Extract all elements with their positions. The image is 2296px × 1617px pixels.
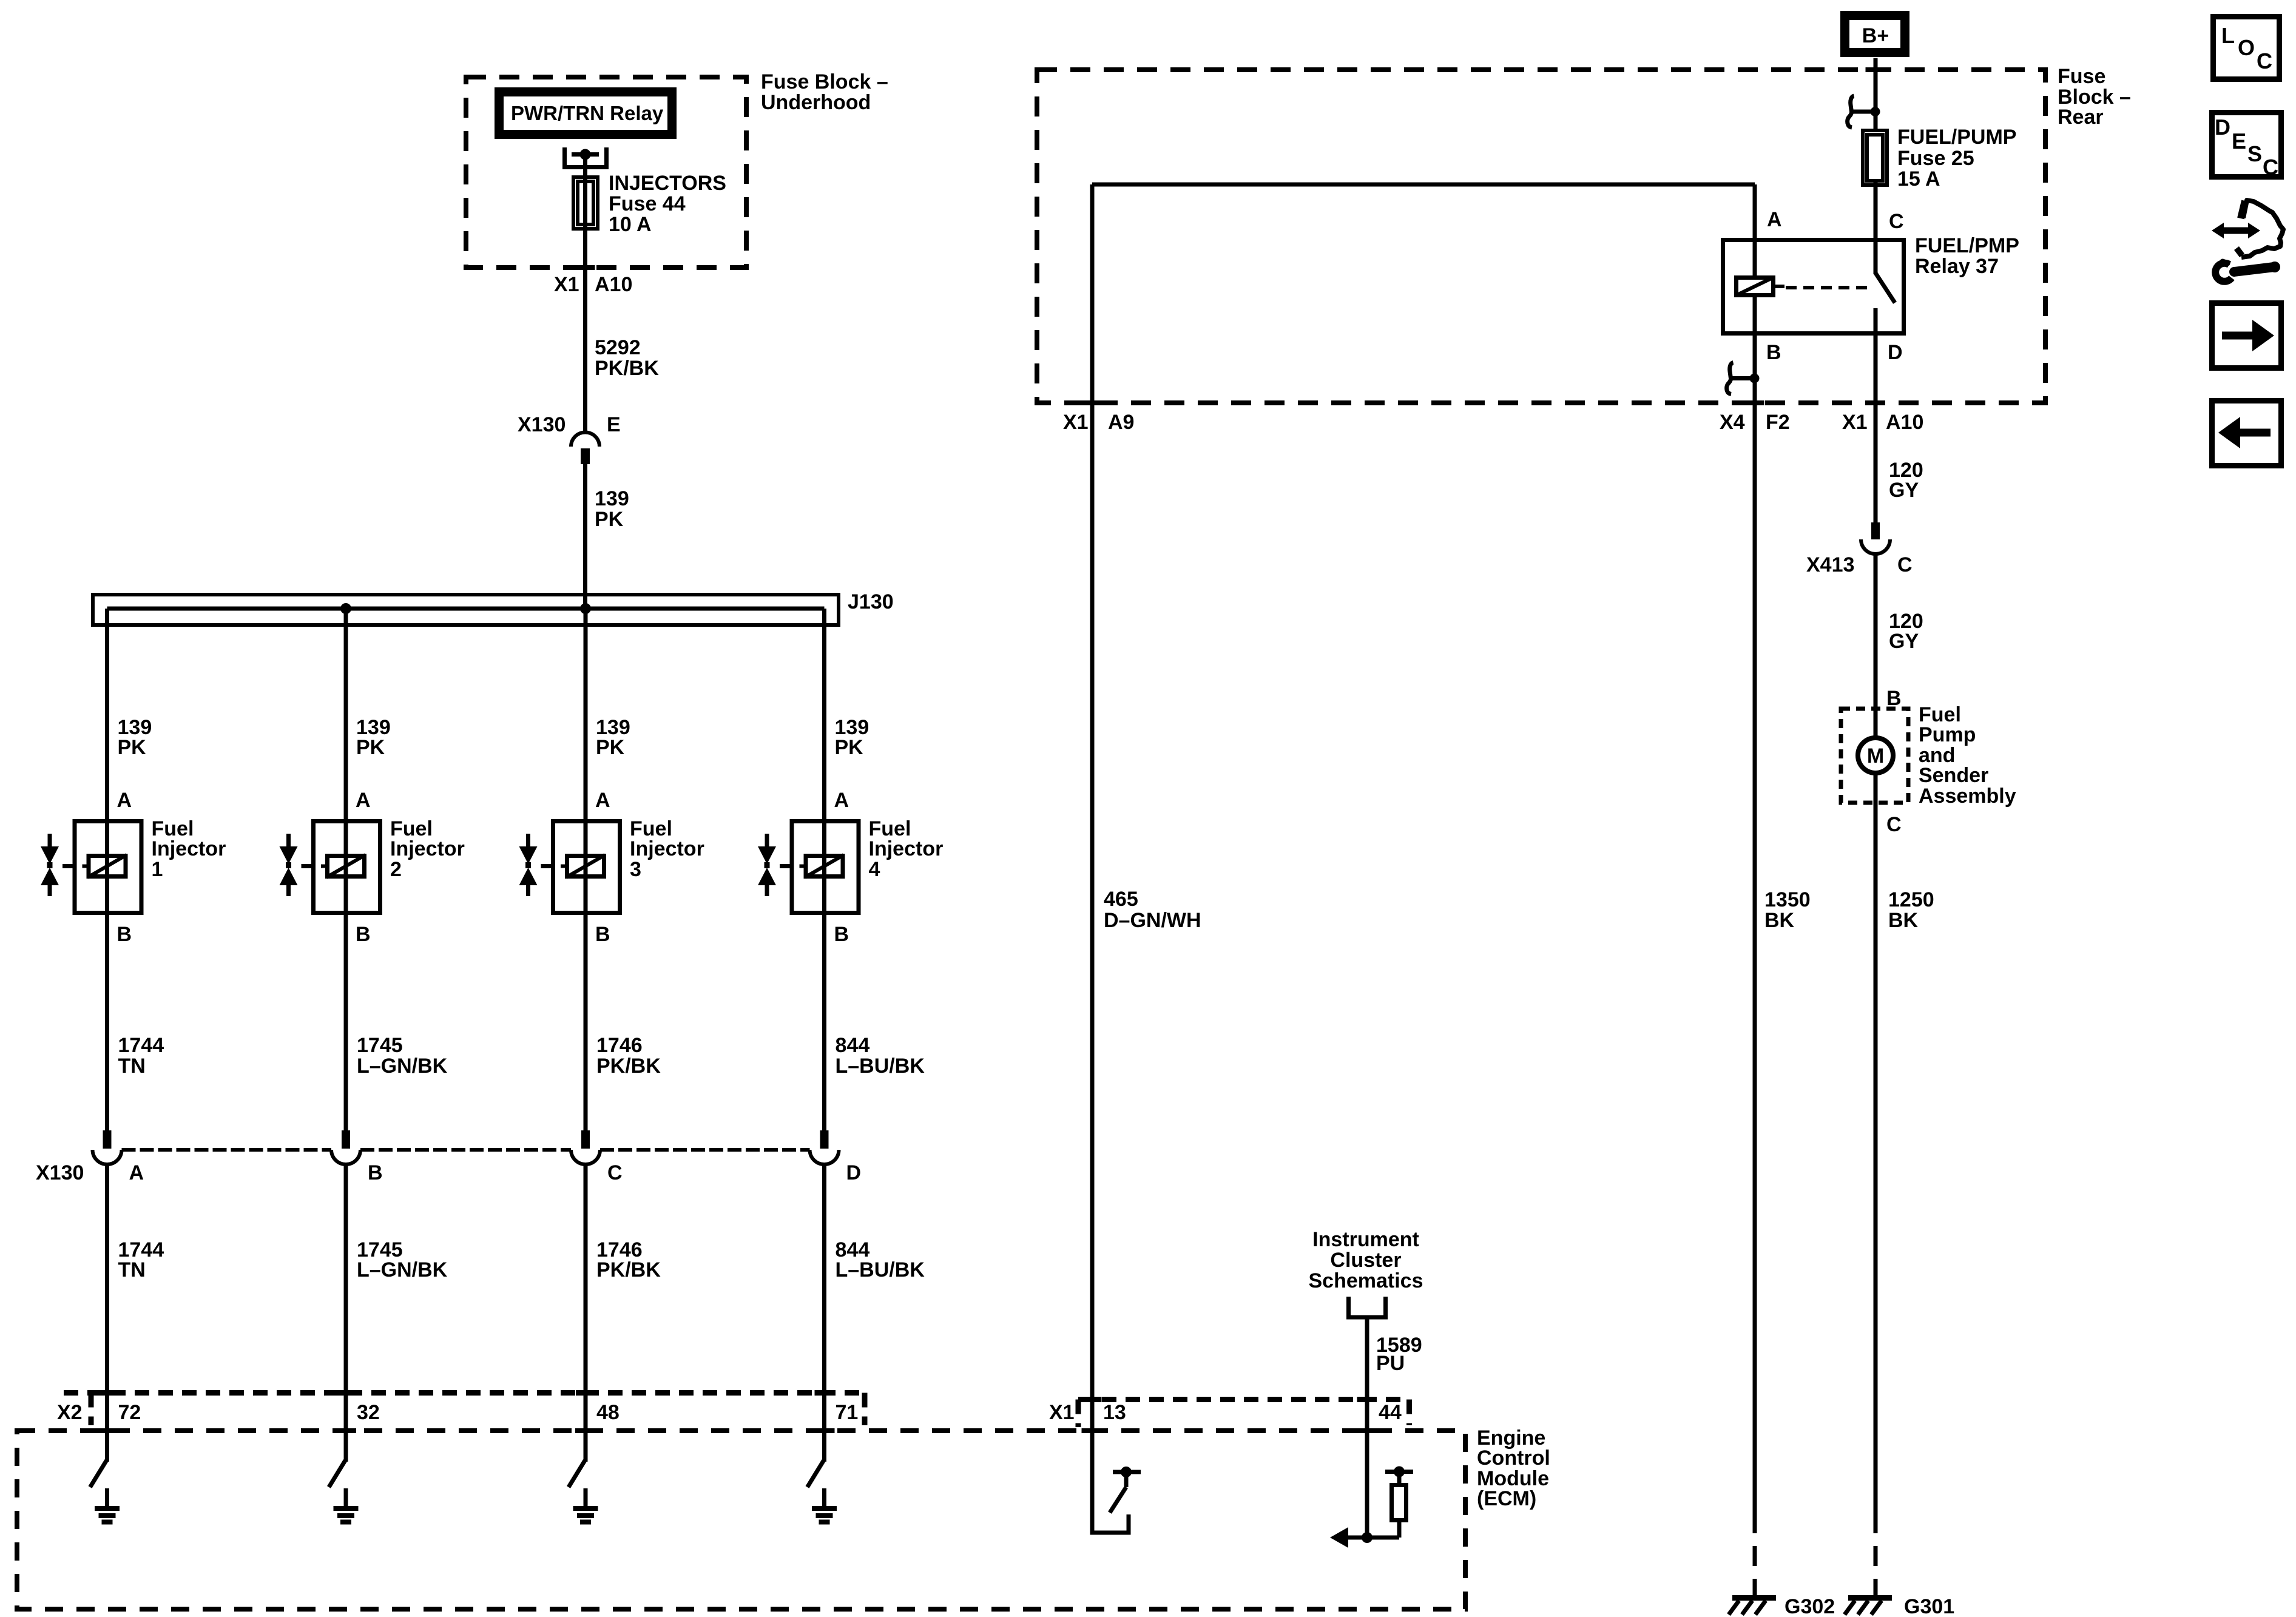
svg-text:X413: X413 — [1806, 553, 1854, 576]
svg-text:B: B — [1766, 341, 1781, 364]
svg-text:B: B — [834, 923, 849, 946]
svg-text:4: 4 — [869, 858, 880, 881]
svg-text:X4: X4 — [1720, 411, 1745, 434]
svg-text:Injector: Injector — [869, 837, 944, 860]
svg-text:X1: X1 — [1049, 1401, 1075, 1424]
svg-text:PK: PK — [118, 736, 147, 759]
svg-text:A10: A10 — [1886, 411, 1923, 434]
svg-text:C: C — [1897, 553, 1913, 576]
svg-text:32: 32 — [357, 1401, 380, 1424]
svg-text:PK: PK — [835, 736, 864, 759]
svg-text:C: C — [2257, 49, 2272, 73]
svg-text:B: B — [356, 923, 371, 946]
svg-text:Instrument: Instrument — [1312, 1228, 1419, 1251]
svg-text:TN: TN — [118, 1258, 146, 1281]
svg-text:B: B — [1886, 687, 1902, 710]
svg-text:Sender: Sender — [1919, 764, 1988, 787]
svg-text:1350: 1350 — [1764, 888, 1811, 911]
svg-text:G301: G301 — [1904, 1595, 1954, 1617]
svg-text:Injector: Injector — [390, 837, 465, 860]
svg-text:1250: 1250 — [1888, 888, 1934, 911]
svg-text:3: 3 — [630, 858, 641, 881]
svg-text:A: A — [356, 789, 371, 812]
svg-text:PK: PK — [596, 736, 625, 759]
svg-text:A10: A10 — [595, 273, 632, 296]
svg-text:X1: X1 — [554, 273, 579, 296]
svg-text:X1: X1 — [1842, 411, 1868, 434]
svg-text:C: C — [2263, 155, 2278, 180]
svg-text:B: B — [117, 923, 132, 946]
svg-text:PK: PK — [356, 736, 385, 759]
svg-text:44: 44 — [1379, 1401, 1402, 1424]
svg-text:Assembly: Assembly — [1919, 785, 2016, 808]
svg-text:S: S — [2247, 141, 2262, 166]
svg-text:L–BU/BK: L–BU/BK — [836, 1258, 925, 1281]
svg-text:C: C — [607, 1161, 623, 1184]
svg-text:J130: J130 — [848, 590, 894, 613]
svg-text:Fuse 25: Fuse 25 — [1897, 147, 1974, 170]
svg-text:B+: B+ — [1862, 24, 1889, 47]
svg-text:48: 48 — [596, 1401, 620, 1424]
svg-text:2: 2 — [390, 858, 402, 881]
svg-text:1: 1 — [152, 858, 163, 881]
svg-text:E: E — [607, 413, 621, 436]
svg-text:B: B — [368, 1161, 383, 1184]
svg-text:C: C — [1886, 813, 1902, 836]
svg-text:139: 139 — [595, 487, 629, 510]
svg-text:A9: A9 — [1108, 411, 1134, 434]
svg-text:D: D — [2215, 115, 2230, 140]
svg-text:72: 72 — [118, 1401, 141, 1424]
svg-text:Relay 37: Relay 37 — [1915, 255, 1999, 278]
svg-text:A: A — [1767, 208, 1782, 231]
svg-text:G302: G302 — [1784, 1595, 1835, 1617]
svg-text:71: 71 — [836, 1401, 859, 1424]
svg-text:A: A — [834, 789, 849, 812]
svg-text:L: L — [2221, 23, 2235, 48]
svg-text:10 A: 10 A — [609, 213, 652, 236]
svg-text:Cluster: Cluster — [1330, 1249, 1401, 1272]
svg-text:X1: X1 — [1063, 411, 1089, 434]
svg-text:Rear: Rear — [2058, 106, 2104, 129]
svg-text:X2: X2 — [57, 1401, 83, 1424]
svg-text:844: 844 — [836, 1034, 870, 1057]
svg-text:1746: 1746 — [596, 1034, 643, 1057]
svg-text:X130: X130 — [36, 1161, 84, 1184]
svg-text:1744: 1744 — [118, 1034, 164, 1057]
svg-text:Fuse Block –: Fuse Block – — [761, 70, 888, 93]
svg-text:Control: Control — [1477, 1447, 1550, 1470]
svg-text:A: A — [595, 789, 610, 812]
svg-text:Fuse: Fuse — [2058, 65, 2105, 88]
svg-text:PK: PK — [595, 508, 624, 531]
svg-text:FUEL/PMP: FUEL/PMP — [1915, 234, 2019, 257]
svg-text:PU: PU — [1376, 1352, 1405, 1375]
svg-text:(ECM): (ECM) — [1477, 1487, 1536, 1510]
svg-text:1745: 1745 — [357, 1034, 403, 1057]
svg-text:TN: TN — [118, 1055, 146, 1078]
svg-text:C: C — [1889, 210, 1904, 233]
svg-text:D–GN/WH: D–GN/WH — [1104, 909, 1201, 932]
svg-text:X130: X130 — [518, 413, 566, 436]
svg-text:INJECTORS: INJECTORS — [609, 172, 726, 195]
svg-text:Injector: Injector — [152, 837, 226, 860]
svg-text:L–GN/BK: L–GN/BK — [357, 1055, 448, 1078]
svg-text:Schematics: Schematics — [1309, 1269, 1423, 1292]
svg-text:GY: GY — [1889, 479, 1919, 502]
svg-text:A: A — [129, 1161, 144, 1184]
svg-text:Underhood: Underhood — [761, 91, 871, 114]
svg-text:PK/BK: PK/BK — [596, 1055, 661, 1078]
svg-text:BK: BK — [1764, 909, 1795, 932]
svg-text:PK/BK: PK/BK — [596, 1258, 661, 1281]
svg-text:BK: BK — [1888, 909, 1919, 932]
svg-text:5292: 5292 — [595, 336, 641, 359]
svg-text:FUEL/PUMP: FUEL/PUMP — [1897, 126, 2016, 149]
svg-text:B: B — [595, 923, 610, 946]
svg-text:465: 465 — [1104, 888, 1138, 911]
svg-text:D: D — [846, 1161, 862, 1184]
svg-text:Pump: Pump — [1919, 723, 1976, 746]
svg-text:O: O — [2238, 35, 2255, 60]
svg-text:F2: F2 — [1766, 411, 1790, 434]
svg-text:L–GN/BK: L–GN/BK — [357, 1258, 448, 1281]
svg-text:M: M — [1867, 744, 1884, 768]
svg-text:PK/BK: PK/BK — [595, 357, 659, 380]
svg-text:D: D — [1888, 341, 1903, 364]
svg-text:A: A — [117, 789, 132, 812]
svg-text:L–BU/BK: L–BU/BK — [836, 1055, 925, 1078]
svg-text:PWR/TRN Relay: PWR/TRN Relay — [511, 102, 664, 124]
svg-text:GY: GY — [1889, 630, 1919, 653]
svg-text:Fuse 44: Fuse 44 — [609, 192, 686, 215]
svg-text:15 A: 15 A — [1897, 167, 1940, 191]
svg-text:E: E — [2232, 129, 2246, 154]
svg-text:Injector: Injector — [630, 837, 704, 860]
svg-text:13: 13 — [1103, 1401, 1126, 1424]
